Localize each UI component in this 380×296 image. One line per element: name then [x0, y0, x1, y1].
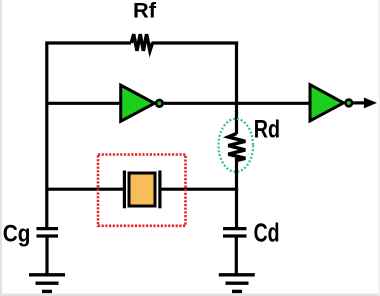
highlight ellipse around Rd: [219, 119, 254, 172]
resistor Rf: [131, 34, 152, 51]
svg-text:Rf: Rf: [133, 0, 157, 22]
svg-text:Cg: Cg: [3, 220, 31, 247]
wire: left rail vertical: [45, 42, 48, 229]
ground (left): [29, 275, 65, 292]
wire: Cd to ground: [235, 238, 238, 275]
wire: right rail upper (top corner to Rd): [235, 42, 238, 135]
wire: right rail lower (Rd to Cd): [235, 158, 238, 228]
inverter U1: [121, 85, 163, 121]
svg-text:Rd: Rd: [254, 116, 280, 144]
crystal X1: [124, 171, 159, 209]
wire: crystal row right segment: [160, 188, 238, 191]
wire: output with arrow: [353, 98, 377, 109]
inverter U2: [310, 85, 352, 121]
highlight box around crystal: [98, 155, 186, 226]
wire: top feedback left segment: [46, 41, 132, 44]
resistor Rd: [228, 134, 245, 161]
capacitor Cd: [223, 229, 247, 236]
wire: U1 output to U2 input: [164, 102, 312, 105]
wire: crystal row left segment: [46, 188, 124, 191]
svg-text:Cd: Cd: [254, 220, 280, 248]
wire: Cg to ground: [45, 238, 48, 275]
ground (right): [219, 275, 255, 292]
wire: inverter U1 input: [46, 102, 123, 105]
capacitor Cg: [37, 229, 59, 236]
wire: top feedback right segment: [152, 41, 239, 44]
